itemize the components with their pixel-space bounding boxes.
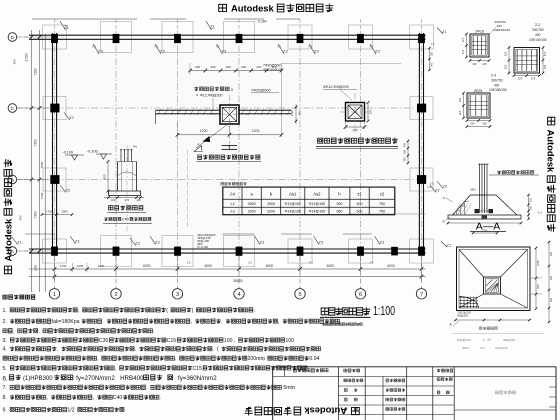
svg-text:470: 470 [125,198,130,202]
svg-text:250: 250 [550,275,553,280]
svg-text:B: B [11,177,14,183]
svg-text:Z2: Z2 [69,115,74,120]
svg-text:fy=270N/mm2: fy=270N/mm2 [76,375,115,382]
svg-text:1880: 1880 [34,264,38,271]
svg-text:Φ12@150: Φ12@150 [284,202,301,206]
svg-text:Φ14@150: Φ14@150 [284,210,301,214]
svg-text:Z1: Z1 [210,25,216,30]
svg-text:200: 200 [226,65,231,69]
svg-text:325: 325 [458,110,462,115]
svg-text:300: 300 [404,157,407,162]
svg-text:10Φ100/150: 10Φ100/150 [529,38,547,42]
svg-text:3: 3 [176,292,179,298]
svg-text:.: . [293,385,294,391]
svg-text:Z3: Z3 [380,240,385,245]
svg-text:2.00: 2.00 [352,128,358,132]
svg-text:4.: 4. [3,347,7,353]
svg-text:400: 400 [494,84,500,88]
svg-text:375: 375 [518,76,523,80]
svg-text:2Φ25: 2Φ25 [474,89,483,93]
svg-text:250: 250 [550,251,553,256]
svg-text:500: 500 [357,202,363,206]
svg-text:C30: C30 [99,338,109,344]
svg-text:2-3: 2-3 [491,74,496,78]
svg-text:1750: 1750 [46,210,52,214]
svg-text:,: , [78,308,79,314]
svg-text:325: 325 [482,121,487,125]
svg-text:(1)HPB300: (1)HPB300 [23,376,53,382]
svg-text:10Φ180/150: 10Φ180/150 [489,88,507,92]
svg-text:,: , [57,347,58,353]
svg-text:HRB400: HRB400 [120,375,144,382]
svg-text:750: 750 [379,210,385,214]
svg-text:200: 200 [256,65,261,69]
svg-text:J-2: J-2 [187,261,191,265]
svg-text:10Φ100/150: 10Φ100/150 [493,28,510,32]
svg-text:375: 375 [543,51,547,56]
svg-text:7: 7 [420,292,423,298]
svg-text:Autodesk: Autodesk [231,3,275,14]
svg-text:375: 375 [461,37,465,42]
svg-text:1200: 1200 [252,129,260,133]
svg-text:-5: -5 [230,88,233,92]
svg-text:Z1: Z1 [75,239,80,244]
svg-text:C15: C15 [167,338,177,344]
svg-text:200: 200 [369,109,373,114]
svg-text:): ) [192,308,194,314]
svg-text:Z1: Z1 [447,242,452,247]
svg-text:Z2: Z2 [435,188,440,193]
svg-text:6: 6 [359,292,362,298]
svg-text:4: 4 [237,292,240,298]
svg-text:Φ12,Φ6@200: Φ12,Φ6@200 [200,94,222,98]
svg-text:200: 200 [210,65,215,69]
svg-text:600: 600 [536,284,540,289]
svg-text:2.48: 2.48 [290,110,294,116]
svg-text:6000: 6000 [326,264,334,268]
svg-text:300: 300 [336,202,342,206]
svg-text:J-2: J-2 [216,45,220,49]
svg-text:1734: 1734 [60,264,67,268]
svg-text:3Φ6@150: 3Φ6@150 [495,346,508,350]
svg-text:b=-0.100: b=-0.100 [197,245,208,249]
svg-text:-1.500: -1.500 [25,53,29,62]
svg-text:100: 100 [285,338,294,344]
svg-text:J-2: J-2 [370,261,374,265]
svg-text:36800: 36800 [233,279,243,283]
svg-text:325: 325 [504,64,508,69]
svg-text:(: ( [217,347,219,353]
svg-text:1950: 1950 [62,210,68,214]
svg-text:350: 350 [530,197,533,202]
svg-text:Z3: Z3 [155,240,160,245]
svg-text:400: 400 [404,142,407,147]
svg-text:375: 375 [531,76,536,80]
svg-text:250: 250 [530,205,533,210]
svg-text:5.: 5. [3,366,7,372]
svg-text:.: . [38,329,39,335]
svg-text:9.: 9. [3,407,7,413]
svg-text:8.: 8. [3,395,7,401]
svg-text:.: . [254,308,255,314]
svg-text:Z2: Z2 [66,188,71,193]
svg-text:J-2: J-2 [277,45,281,49]
svg-text:J-4: J-4 [431,42,435,46]
svg-text:C: C [11,106,15,112]
svg-text:c: c [443,196,445,200]
svg-text:1700: 1700 [40,192,44,199]
svg-text:,: , [221,319,222,325]
svg-text:,: , [115,366,116,372]
svg-text:.: . [102,319,103,325]
svg-text:6000: 6000 [266,264,274,268]
svg-text:.: . [159,395,160,401]
svg-text:2500: 2500 [267,202,275,206]
svg-text:As1: As1 [289,191,297,196]
svg-text:6.: 6. [3,376,8,383]
svg-text:4Φ12,Φ6@200: 4Φ12,Φ6@200 [263,68,282,72]
svg-text:0.94: 0.94 [309,356,319,362]
svg-text:Z3: Z3 [375,49,380,54]
svg-text:J-2: J-2 [230,210,235,214]
svg-text:300/750: 300/750 [532,28,544,32]
svg-text:Z3: Z3 [283,49,288,54]
svg-text:1 : 20: 1 : 20 [483,338,491,342]
svg-text:,: , [93,395,94,401]
svg-text:As2: As2 [313,191,321,196]
svg-text:.: . [213,347,214,353]
svg-text:J-3: J-3 [430,182,434,186]
svg-text:400: 400 [13,59,17,64]
svg-text:,: , [46,395,47,401]
svg-text:fy=360N/mm2: fy=360N/mm2 [178,375,217,382]
svg-text:D: D [11,35,15,41]
svg-text:Φ12@150: Φ12@150 [309,202,326,206]
svg-text:200: 200 [195,65,200,69]
svg-text:1500: 1500 [40,161,44,168]
svg-text:7.: 7. [3,385,7,391]
svg-text:3.: 3. [3,338,7,344]
svg-text:2-2: 2-2 [535,23,540,27]
svg-text:.: . [146,385,147,391]
svg-text:6000: 6000 [204,264,212,268]
svg-text:100: 100 [224,338,233,344]
svg-text:240: 240 [298,111,302,116]
svg-text:J-2: J-2 [92,45,96,49]
svg-text:1.: 1. [3,308,7,314]
svg-text:-0.100: -0.100 [63,151,73,155]
svg-text:C40: C40 [122,218,129,222]
svg-text:350: 350 [404,149,407,154]
svg-text:-1.5: -1.5 [537,211,542,215]
svg-text:Z1: Z1 [442,29,447,34]
svg-text:J-1: J-1 [230,202,235,206]
svg-text:J-n: J-n [229,191,235,196]
svg-text:Z1: Z1 [17,240,22,245]
svg-text:A—A: A—A [476,221,501,233]
svg-text:2Φ16: 2Φ16 [475,30,484,34]
svg-text:Z1: Z1 [64,25,70,30]
svg-text:Φ12@150: Φ12@150 [457,338,471,342]
svg-text:.: . [13,329,14,335]
svg-text:Z3: Z3 [260,240,265,245]
svg-text:,: , [340,319,341,325]
svg-text:300: 300 [430,51,433,56]
svg-text:J-2: J-2 [308,45,312,49]
svg-text:fak=180Kpa: fak=180Kpa [52,319,80,325]
svg-text:C40: C40 [113,395,123,401]
svg-text:6000: 6000 [143,264,151,268]
svg-text:Z3: Z3 [98,49,103,54]
svg-text:1830: 1830 [98,264,105,268]
svg-text:1436: 1436 [77,264,84,268]
svg-text:Φ14@150: Φ14@150 [309,210,326,214]
svg-text:325: 325 [470,121,475,125]
svg-text:Φ6@200: Φ6@200 [503,338,515,342]
svg-text:5.280: 5.280 [258,20,267,24]
svg-text:.: . [135,347,136,353]
svg-text:325: 325 [472,62,477,66]
svg-text:700: 700 [483,228,488,232]
svg-text:200: 200 [241,65,246,69]
svg-text:650: 650 [336,210,342,214]
svg-text:2500: 2500 [248,202,256,206]
svg-text:4Φ12,Φ6@200: 4Φ12,Φ6@200 [323,85,349,89]
svg-text:1050: 1050 [536,260,540,266]
svg-text:z2: z2 [380,191,385,196]
svg-text:1/2: 1/2 [67,407,74,413]
svg-text:800: 800 [103,174,107,179]
svg-text:100: 100 [111,198,116,202]
svg-text:4: 4 [196,94,198,98]
svg-text:340: 340 [430,62,433,67]
svg-text:J-2: J-2 [309,261,313,265]
svg-text:2: 2 [114,292,117,298]
svg-text:Z3: Z3 [319,240,324,245]
svg-text:325: 325 [504,51,508,56]
svg-text:Φ6@200: Φ6@200 [458,314,469,318]
svg-text:2Φ12: 2Φ12 [462,346,469,350]
svg-text:J-2: J-2 [248,261,252,265]
svg-text:500: 500 [357,210,363,214]
svg-text:Z3: Z3 [314,49,319,54]
svg-text:-0.100: -0.100 [87,150,98,154]
svg-text:1: 1 [53,292,56,298]
svg-text:300/750: 300/750 [491,79,503,83]
svg-text:J-4: J-4 [427,185,431,189]
svg-text:,: , [175,356,176,362]
svg-text:.: . [153,329,154,335]
svg-text:1:100: 1:100 [373,304,395,318]
svg-text:Autodesk: Autodesk [546,130,557,174]
svg-text:2Φ6: 2Φ6 [470,188,476,192]
svg-text:1200: 1200 [200,129,208,133]
svg-text:750: 750 [379,202,385,206]
svg-text:7150: 7150 [34,139,38,146]
svg-text:100: 100 [480,346,485,350]
svg-text:,: , [191,319,192,325]
svg-text:9%: 9% [133,145,138,149]
svg-text:400: 400 [535,33,541,37]
svg-text:5: 5 [298,292,301,298]
svg-text:d: d [443,220,445,224]
svg-text:,: , [278,319,279,325]
svg-text:J-2: J-2 [154,45,158,49]
svg-text:325: 325 [458,97,462,102]
svg-text:z1: z1 [357,191,362,196]
svg-text:325: 325 [543,64,547,69]
svg-text:Z2: Z2 [443,184,448,189]
svg-text:3200: 3200 [267,210,275,214]
svg-text:400: 400 [19,215,23,220]
svg-text:7Φ20@500: 7Φ20@500 [251,89,271,93]
svg-text:,: , [97,356,98,362]
svg-text:6000: 6000 [387,264,395,268]
svg-text:3200: 3200 [248,210,256,214]
svg-text:J-2: J-2 [369,45,373,49]
svg-text:Z3: Z3 [222,49,227,54]
svg-text:2.: 2. [3,319,7,325]
svg-text:Autodesk: Autodesk [304,406,348,417]
svg-text:250: 250 [550,297,553,302]
svg-text:Z3: Z3 [135,241,140,246]
svg-text:Z3: Z3 [160,49,165,54]
svg-text:,: , [234,338,235,344]
svg-text:C15: C15 [193,366,203,372]
svg-text:4: 4 [198,143,200,147]
svg-text:,: , [263,356,264,362]
svg-text:375: 375 [461,49,465,54]
svg-text:100: 100 [136,198,141,202]
svg-text:(: ( [166,308,168,314]
svg-text:7100: 7100 [34,68,38,75]
svg-text:325: 325 [482,62,487,66]
svg-text:7100: 7100 [34,211,38,218]
